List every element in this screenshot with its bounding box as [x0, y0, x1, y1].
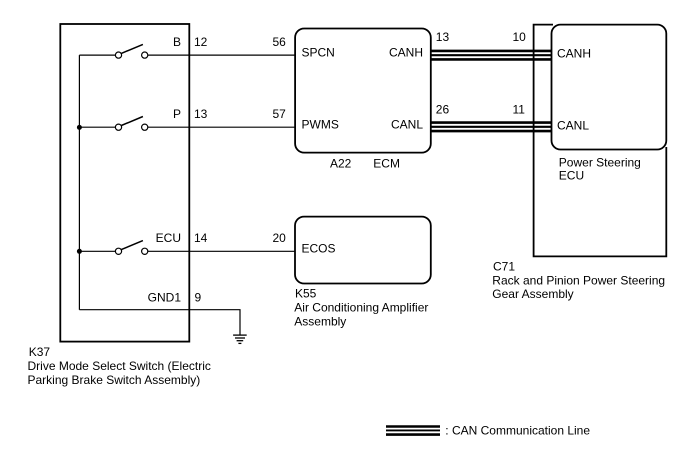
- svg-text:B: B: [173, 35, 181, 49]
- assembly C71 outer box: [534, 25, 667, 257]
- svg-text:CANH: CANH: [389, 46, 423, 60]
- svg-text:14: 14: [194, 231, 208, 245]
- power steering ECU box: [552, 25, 667, 150]
- wire row ECU left stub: [79, 250, 115, 252]
- svg-text:Gear Assembly: Gear Assembly: [492, 287, 573, 301]
- wire ECU to ECOS: [148, 250, 295, 252]
- wire GND1 to ground: [79, 310, 240, 335]
- wire internal vertical bus: [78, 55, 80, 310]
- wire P to PWMS: [148, 126, 295, 128]
- svg-text:ECU: ECU: [559, 169, 584, 183]
- wire B to SPCN: [148, 54, 295, 56]
- svg-text:Parking Brake Switch Assembly): Parking Brake Switch Assembly): [28, 373, 201, 387]
- svg-text:CANL: CANL: [557, 118, 589, 132]
- svg-text:GND1: GND1: [148, 291, 182, 305]
- svg-text:ECU: ECU: [156, 231, 181, 245]
- svg-text:C71: C71: [493, 259, 515, 273]
- CAN bus CANH triple line: [431, 51, 552, 60]
- switch P: [115, 117, 147, 131]
- svg-text:56: 56: [273, 35, 287, 49]
- switch ECU: [115, 241, 147, 255]
- svg-text:A22: A22: [330, 157, 352, 171]
- svg-text:Power Steering: Power Steering: [559, 155, 641, 169]
- connector K37 box: [60, 24, 189, 342]
- svg-text:PWMS: PWMS: [302, 118, 339, 132]
- svg-text:20: 20: [273, 231, 287, 245]
- svg-text:Rack and Pinion Power Steering: Rack and Pinion Power Steering: [492, 274, 665, 288]
- svg-text:11: 11: [513, 102, 526, 116]
- svg-text:Drive Mode Select Switch (Elec: Drive Mode Select Switch (Electric: [28, 359, 211, 373]
- svg-text:ECM: ECM: [373, 157, 400, 171]
- svg-text:K55: K55: [295, 287, 317, 301]
- ground: [233, 335, 247, 343]
- svg-text:CANH: CANH: [557, 46, 591, 60]
- svg-text:Assembly: Assembly: [294, 315, 346, 329]
- node junction P: [77, 125, 82, 130]
- svg-text:SPCN: SPCN: [302, 46, 335, 60]
- svg-text:9: 9: [195, 291, 202, 305]
- svg-text:13: 13: [194, 107, 208, 121]
- svg-text:57: 57: [273, 107, 287, 121]
- svg-text:Air Conditioning Amplifier: Air Conditioning Amplifier: [294, 301, 428, 315]
- CAN bus CANL triple line: [431, 123, 552, 132]
- ECU A22 box: [295, 29, 431, 153]
- svg-text:K37: K37: [29, 345, 51, 359]
- svg-text:26: 26: [436, 102, 450, 116]
- svg-text:13: 13: [436, 30, 450, 44]
- legend CAN communication line symbol: [386, 427, 440, 435]
- wire row P left stub: [79, 126, 115, 128]
- svg-text:12: 12: [194, 35, 208, 49]
- wire row B left stub: [79, 54, 115, 56]
- switch B: [115, 44, 147, 58]
- K55 amplifier box: [295, 217, 431, 284]
- svg-text:P: P: [173, 107, 181, 121]
- svg-text:10: 10: [513, 30, 527, 44]
- svg-text:: CAN Communication Line: : CAN Communication Line: [445, 424, 590, 438]
- node junction ECU: [77, 249, 82, 254]
- svg-text:ECOS: ECOS: [302, 242, 336, 256]
- svg-text:CANL: CANL: [391, 118, 423, 132]
